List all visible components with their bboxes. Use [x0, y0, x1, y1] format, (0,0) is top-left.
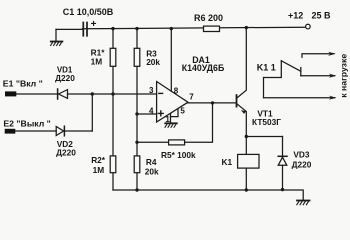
junction: top rail / R3: [135, 27, 138, 30]
pin 1 stub: [170, 114, 172, 123]
op-amp DA1 triangle: [157, 82, 188, 123]
svg-text:20k: 20k: [145, 166, 159, 176]
svg-text:5: 5: [180, 106, 185, 115]
wire: pin 8 stub to top rail: [170, 29, 172, 92]
svg-text:1М: 1М: [91, 57, 103, 67]
svg-text:КТ503Г: КТ503Г: [252, 117, 281, 127]
wire: middle output to load with arrow: [301, 74, 337, 78]
svg-text:VD3: VD3: [293, 149, 310, 159]
wire: relay coil to ground rail: [245, 168, 247, 190]
ground (top-left): [51, 42, 63, 46]
svg-text:к нагрузке: к нагрузке: [339, 54, 349, 98]
svg-text:Д220: Д220: [56, 148, 76, 158]
wire: bottom ground rail: [113, 190, 303, 200]
junction: VD3 / bottom rail: [281, 188, 284, 191]
svg-text:8: 8: [174, 87, 179, 96]
junction: top rail / pin 8: [170, 27, 173, 30]
wire: R1/R2 column: [112, 29, 114, 190]
junction: K1 / bottom rail: [245, 188, 248, 191]
terminal E1 (input lug): [5, 91, 16, 96]
resistor R3: [134, 48, 140, 66]
wire: emitter node down to relay coil: [245, 137, 247, 155]
wire: op-amp output to VT1 base: [188, 102, 236, 104]
relay coil K1: [238, 154, 259, 168]
pin 5 stub: [171, 109, 179, 116]
junction: R5 / output wire: [211, 101, 214, 104]
wire: VD2 to riser: [65, 130, 92, 132]
junction: R1 column / E1 wire: [111, 92, 114, 95]
wire: E1 input to diode VD1: [16, 93, 57, 95]
op-amp plus input sign: [158, 111, 163, 116]
VT1 collector lead: [237, 29, 246, 98]
svg-text:3: 3: [149, 86, 154, 95]
wire: emitter node horizontal: [246, 136, 282, 138]
diode VD1: [58, 89, 68, 99]
junction: E1/E2 node: [91, 92, 94, 95]
junction: top rail / R1: [111, 27, 114, 30]
svg-text:1М: 1М: [93, 165, 105, 175]
resistor R4: [134, 156, 140, 173]
resistor R5: [169, 140, 185, 145]
resistor R2: [110, 156, 116, 173]
transistor VT1 base bar: [236, 95, 238, 107]
wire: VD3 column top: [282, 137, 284, 156]
diode VD2: [56, 126, 64, 136]
svg-text:R6 200: R6 200: [194, 13, 223, 23]
svg-text:+12: +12: [288, 11, 303, 21]
relay contact K1.1 blade end tick: [300, 68, 302, 76]
resistor R1: [110, 48, 116, 66]
svg-text:К140УД6Б: К140УД6Б: [182, 63, 225, 73]
wire: C1 left lead down to ground: [55, 29, 57, 41]
ground (op-amp pin 1): [165, 123, 177, 127]
junction: R4 / bottom rail: [135, 188, 138, 191]
wire: R5 right lead up to output: [185, 103, 213, 142]
op-amp minus input sign: [159, 92, 163, 94]
wire: top fixed contact to load with arrow: [302, 52, 336, 58]
capacitor C1: [56, 23, 87, 36]
terminal +12 V (open circle): [306, 24, 311, 29]
wire: E2 riser up to E1 wire: [91, 94, 93, 131]
junction: R5 tap on R3/R4 column: [135, 141, 138, 144]
VT1 emitter lead with arrow: [237, 104, 246, 137]
wire: VD1 to op-amp pin 3: [68, 93, 157, 95]
svg-text:+: +: [91, 19, 97, 30]
svg-text:4: 4: [149, 106, 154, 115]
svg-text:Д220: Д220: [292, 160, 312, 170]
diode VD3: [278, 156, 287, 165]
svg-text:K1 1: K1 1: [257, 62, 276, 72]
wire: top +12 supply rail: [83, 27, 305, 29]
svg-text:7: 7: [189, 92, 194, 101]
svg-text:C1 10,0/50В: C1 10,0/50В: [63, 7, 114, 17]
junction: top rail / collector: [245, 26, 248, 29]
wire: R3/R4 column: [136, 29, 138, 190]
junction: emitter node: [245, 135, 248, 138]
wire: VD3 to bottom rail: [282, 165, 284, 190]
wire: bottom common to load with arrow: [264, 96, 337, 100]
svg-text:E1 "Вкл ": E1 "Вкл ": [3, 78, 43, 88]
wire: pin 4 lead: [137, 113, 156, 115]
svg-text:R5* 100k: R5* 100k: [161, 150, 196, 160]
relay contact K1.1 movable blade: [281, 61, 301, 72]
svg-text:25 В: 25 В: [312, 11, 332, 21]
wire: R5 left lead: [137, 141, 169, 143]
terminal E2 (input lug): [5, 129, 16, 134]
ground (bottom-right): [297, 201, 310, 205]
wire: E2 input to diode VD2: [15, 130, 56, 132]
svg-text:Д220: Д220: [55, 73, 75, 83]
svg-text:R2*: R2*: [91, 155, 106, 165]
svg-text:K1: K1: [222, 157, 233, 167]
svg-text:20k: 20k: [146, 57, 160, 67]
resistor R6: [204, 26, 220, 31]
junction: R3/R4 node to op-amp pin 4: [135, 112, 138, 115]
svg-text:E2 "Выкл ": E2 "Выкл ": [3, 119, 50, 129]
relay contact K1.1 common lead: [264, 61, 282, 98]
